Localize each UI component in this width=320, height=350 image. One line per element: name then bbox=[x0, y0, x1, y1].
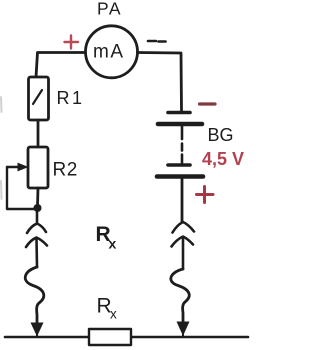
label Rx (above bottom resistor) bbox=[97, 295, 118, 322]
bottom wire (resistance wire under test) bbox=[5, 336, 248, 339]
upward arrow of left probe bbox=[26, 238, 47, 268]
label 4,5 V (red) bbox=[202, 149, 244, 169]
scan smudge left edge bbox=[0, 97, 3, 199]
label BG bbox=[208, 125, 234, 145]
wire: top-left horizontal + left vertical to R1 bbox=[36, 53, 86, 78]
battery BG plates bbox=[157, 113, 203, 223]
resistor R1 bbox=[29, 77, 49, 120]
resistor Rx box on bottom wire bbox=[89, 329, 131, 345]
plus sign (red) at ammeter left terminal bbox=[65, 36, 79, 49]
wire: R2 bottom to junction bbox=[36, 188, 39, 206]
svg-text:PA: PA bbox=[97, 0, 122, 19]
R2 slider arrow bbox=[7, 163, 29, 172]
svg-text:x: x bbox=[110, 307, 117, 322]
svg-text:R1: R1 bbox=[57, 88, 85, 108]
minus sign (black) at ammeter right terminal bbox=[148, 40, 166, 43]
label mA inside meter bbox=[93, 42, 125, 63]
left probe tip (down arrow) bbox=[31, 323, 44, 338]
right probe tip (down arrow) bbox=[177, 322, 190, 338]
plus sign (red) at battery bottom bbox=[197, 187, 214, 203]
label R2 bbox=[53, 160, 78, 181]
minus sign (dark red) at battery top bbox=[200, 102, 216, 105]
R1 adjustment slash bbox=[33, 90, 42, 104]
junction dot bbox=[34, 204, 42, 212]
rheostat R2 bbox=[28, 147, 48, 188]
svg-text:R2: R2 bbox=[53, 160, 78, 181]
upward arrow of right probe bbox=[172, 237, 194, 270]
forked wire end (right probe contact) bbox=[173, 222, 195, 233]
svg-text:x: x bbox=[109, 236, 117, 252]
label PA bbox=[97, 0, 122, 19]
label Rx (middle) bbox=[96, 223, 117, 252]
forked wire end (left probe contact) bbox=[27, 224, 46, 234]
svg-text:mA: mA bbox=[93, 42, 125, 63]
ammeter PA circle bbox=[86, 26, 138, 78]
wire: R1 to R2 bbox=[37, 120, 40, 147]
svg-text:BG: BG bbox=[208, 125, 234, 145]
R2 bypass wire (slider to bottom) bbox=[7, 167, 34, 209]
svg-text:4,5 V: 4,5 V bbox=[202, 149, 244, 169]
wire: top-right horizontal + right vertical down to battery bbox=[138, 53, 182, 112]
label R1 bbox=[57, 88, 85, 108]
wire below junction bbox=[36, 212, 39, 224]
flexible wire (left wiggle) bbox=[25, 267, 44, 324]
flexible wire (right wiggle) bbox=[171, 269, 189, 323]
